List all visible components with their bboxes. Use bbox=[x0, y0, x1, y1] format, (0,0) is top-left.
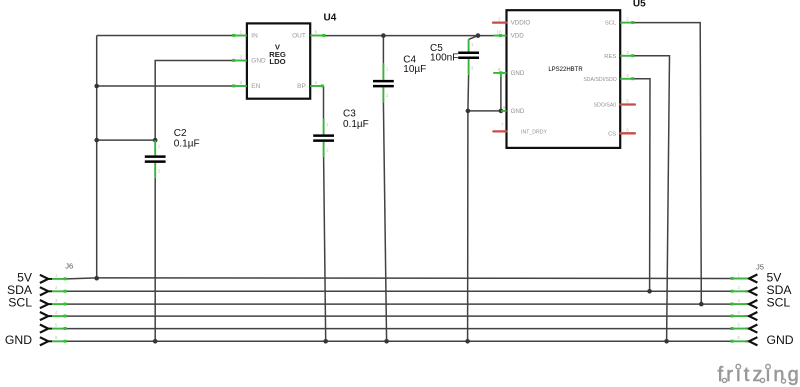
capacitor C3 bbox=[313, 119, 334, 157]
svg-text:SDA/SDI/SDO: SDA/SDI/SDO bbox=[583, 77, 616, 83]
U4 pin BP bbox=[297, 80, 324, 90]
svg-text:GND: GND bbox=[511, 108, 525, 115]
svg-text:VDD: VDD bbox=[511, 33, 525, 40]
junction row6 C2 bbox=[153, 339, 158, 344]
junction C4 top bbox=[381, 33, 386, 38]
svg-text:SCL: SCL bbox=[8, 296, 32, 310]
svg-text:10µF: 10µF bbox=[403, 64, 426, 75]
wire rail to C2 top bbox=[97, 139, 156, 141]
svg-text:SDO/SA0: SDO/SA0 bbox=[594, 103, 617, 109]
wire VDD net to C5 top bbox=[469, 36, 478, 40]
J6 pin 5 bbox=[40, 323, 67, 333]
wire U5 RES down to GND row bbox=[634, 56, 670, 342]
U5 pin GND2 bbox=[501, 105, 525, 115]
op-amp U4 regulator box bbox=[247, 23, 310, 98]
wire U4 BP down to C3 bbox=[323, 86, 325, 119]
svg-text:U5: U5 bbox=[633, 0, 646, 10]
wire C4 bottom to GND row bbox=[383, 102, 386, 341]
wire bus row3 SCL bbox=[67, 303, 731, 305]
U4 pin OUT bbox=[292, 30, 325, 40]
junction GND2 bbox=[499, 109, 504, 114]
svg-text:J5: J5 bbox=[756, 262, 764, 271]
IC U5 box bbox=[507, 10, 621, 148]
capacitor C5 bbox=[458, 39, 479, 75]
svg-text:BP: BP bbox=[297, 83, 306, 90]
J6 pin 3 bbox=[40, 298, 67, 308]
junction C2 top bbox=[153, 138, 158, 143]
svg-text:IN: IN bbox=[251, 33, 258, 40]
wire U4 IN to rail bbox=[97, 35, 233, 37]
U4 pin IN bbox=[232, 30, 258, 40]
J5 pin 5 bbox=[731, 323, 758, 333]
U4 pin EN bbox=[232, 80, 260, 90]
U5 pin SCL bbox=[605, 17, 634, 27]
junction row6 C4 bbox=[384, 339, 389, 344]
J6 pin 2 bbox=[40, 285, 67, 295]
J5 pin 6 bbox=[731, 335, 758, 345]
U5 pin GND1 bbox=[493, 67, 525, 77]
svg-text:RES: RES bbox=[604, 54, 616, 60]
wire C5 bottom bbox=[467, 75, 470, 111]
svg-text:VDDIO: VDDIO bbox=[511, 20, 531, 27]
J5 pin 4 bbox=[731, 310, 758, 320]
svg-text:GND: GND bbox=[767, 333, 794, 347]
wire U5 SDA down to row2 bbox=[634, 79, 650, 291]
U5 pin SDO/SA0 (nc) bbox=[594, 99, 635, 109]
wire bus row1 5V bbox=[67, 278, 731, 279]
svg-text:J6: J6 bbox=[65, 262, 73, 271]
wire U4 EN to rail bbox=[97, 85, 233, 87]
U4 pin GND bbox=[232, 55, 266, 65]
wire bus row5 bbox=[67, 328, 731, 330]
wire bus row4 bbox=[67, 315, 731, 317]
wire C5 node to GND row bbox=[467, 111, 469, 341]
svg-text:EN: EN bbox=[251, 83, 260, 90]
svg-text:U4: U4 bbox=[324, 12, 337, 23]
U5 pin SDA/SDI/SDO bbox=[583, 73, 634, 83]
svg-text:GND: GND bbox=[5, 333, 32, 347]
svg-text:100nF: 100nF bbox=[430, 53, 458, 64]
U5 pin VDDIO (nc) bbox=[493, 17, 530, 27]
junction rail-C2 bbox=[94, 138, 99, 143]
U5 pin INT_DRDY (nc) bbox=[493, 122, 547, 135]
junction rail-5V row bbox=[94, 276, 99, 281]
junction C5 top bbox=[476, 33, 481, 38]
junction row6 C5 bbox=[465, 339, 470, 344]
svg-text:fritzing: fritzing bbox=[718, 364, 800, 386]
junction C5 bottom bbox=[466, 109, 471, 114]
wire U4 OUT to U5 VDD bbox=[325, 35, 498, 37]
J6 pin 6 bbox=[40, 335, 67, 345]
wire C3 bottom to GND row bbox=[324, 157, 326, 341]
J5 pin 1 bbox=[731, 272, 758, 282]
wire C2 bottom to GND row bbox=[154, 178, 156, 341]
svg-text:0.1µF: 0.1µF bbox=[343, 119, 369, 130]
wire bus row6 GND bbox=[67, 340, 731, 342]
J5 pin 2 bbox=[731, 285, 758, 295]
svg-text:LDO: LDO bbox=[269, 57, 285, 66]
junction row6 RES bbox=[664, 339, 669, 344]
wire C4 top drop bbox=[382, 36, 384, 64]
U5 pin RES bbox=[604, 50, 634, 60]
junction row6 C3 bbox=[323, 339, 328, 344]
svg-text:INT_DRDY: INT_DRDY bbox=[521, 129, 547, 135]
U5 pin CS (nc) bbox=[608, 127, 635, 137]
wire bus row2 SDA bbox=[67, 290, 731, 292]
wire U4 GND down to C2 bbox=[155, 61, 233, 141]
svg-text:10: 10 bbox=[497, 30, 502, 35]
svg-text:SCL: SCL bbox=[605, 21, 617, 27]
svg-text:OUT: OUT bbox=[292, 33, 306, 40]
junction row3 SCL bbox=[699, 302, 704, 307]
J6 pin 4 bbox=[40, 310, 67, 320]
wire U5 GND1 drop bbox=[500, 75, 502, 111]
svg-text:SCL: SCL bbox=[767, 296, 791, 310]
svg-text:GND: GND bbox=[251, 58, 266, 65]
wire 5V rail vertical bbox=[96, 36, 98, 279]
capacitor C4 bbox=[373, 64, 394, 103]
J5 pin 3 bbox=[731, 298, 758, 308]
capacitor C2 bbox=[145, 140, 166, 178]
svg-text:CS: CS bbox=[608, 131, 616, 137]
svg-text:LPS22HBTR: LPS22HBTR bbox=[548, 67, 583, 73]
U5 pin VDD bbox=[494, 30, 525, 40]
svg-text:GND: GND bbox=[511, 70, 525, 77]
wire C5 bottom to U5 GND2 bbox=[468, 110, 501, 112]
wire U5 SCL down to row3 bbox=[634, 23, 701, 305]
junction rail-EN bbox=[94, 84, 99, 89]
junction row2 SDA bbox=[647, 289, 652, 294]
J6 pin 1 bbox=[40, 273, 67, 283]
svg-text:0.1µF: 0.1µF bbox=[174, 138, 200, 149]
fritzing logo bbox=[718, 364, 800, 386]
